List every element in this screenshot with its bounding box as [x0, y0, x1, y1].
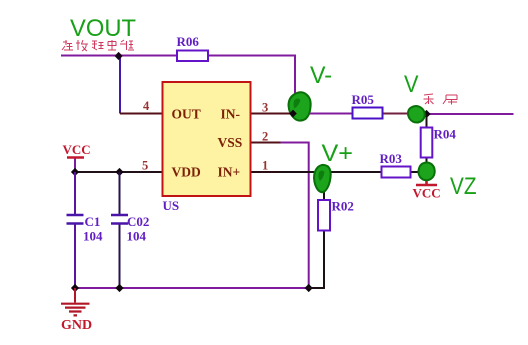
wire bottom ground bus	[75, 287, 309, 289]
wire VCC left to pin 5	[75, 171, 163, 173]
test point blob V-	[289, 92, 311, 120]
svg-text:R03: R03	[380, 151, 403, 166]
svg-text:3: 3	[262, 101, 268, 115]
node VCC-C1 junction	[71, 168, 79, 176]
node VSS bottom junction	[305, 284, 313, 292]
pin 2 of U5	[251, 142, 281, 144]
svg-text:VOUT: VOUT	[70, 15, 136, 42]
pin 3 of U5	[251, 113, 294, 115]
op-amp U5 body	[163, 82, 251, 196]
svg-text:V+: V+	[322, 140, 354, 167]
svg-text:V-: V-	[310, 62, 332, 89]
resistor R02	[318, 200, 330, 231]
power VCC right symbol	[416, 180, 437, 185]
test point blob VZ	[418, 162, 434, 180]
net label (Chinese) 采样 drawn as strokes	[424, 94, 458, 105]
wire C1 bottom lead	[74, 225, 76, 289]
wire R03 to VZ node	[411, 171, 421, 173]
node V junction	[422, 110, 430, 118]
wire C1 top lead	[74, 172, 76, 214]
wire C02 bottom lead	[119, 225, 121, 289]
svg-text:V: V	[404, 71, 419, 98]
node C02 top junction	[115, 168, 123, 176]
wire VOUT top horizontal	[61, 55, 177, 57]
wire C02 top lead	[119, 172, 121, 214]
wire VSS run right and down to bottom bus	[281, 143, 309, 289]
wire VCC left stem	[74, 158, 76, 173]
pin 1 of U5	[251, 171, 281, 173]
pin 4 of U5	[120, 113, 163, 115]
svg-text:R04: R04	[434, 127, 457, 142]
wire R05 to V node	[383, 113, 421, 115]
svg-text:IN-: IN-	[221, 107, 241, 122]
svg-text:C02: C02	[127, 214, 149, 229]
resistor R03	[382, 167, 411, 178]
test point blob V+	[314, 165, 331, 192]
resistor R06	[177, 51, 208, 62]
wire V- node to R05	[295, 113, 353, 115]
wire R04 bottom lead to VZ node	[426, 157, 428, 184]
svg-text:C1: C1	[85, 214, 101, 229]
node GND junction	[71, 284, 79, 292]
svg-text:US: US	[163, 198, 180, 213]
svg-text:VSS: VSS	[218, 135, 243, 150]
svg-text:R02: R02	[332, 199, 354, 214]
wire R02 bottom lead	[308, 231, 324, 289]
wire VOUT vertical drop to pin 4	[119, 56, 121, 114]
svg-text:IN+: IN+	[218, 165, 241, 180]
wire R06 right run and drop to V- node	[208, 56, 295, 115]
svg-text:104: 104	[127, 229, 147, 244]
resistor R04	[421, 128, 433, 158]
svg-text:VCC: VCC	[63, 142, 91, 157]
svg-text:GND: GND	[61, 318, 92, 333]
svg-text:4: 4	[143, 99, 150, 113]
svg-text:VDD: VDD	[172, 165, 201, 180]
capacitor C02 plates	[111, 215, 128, 224]
capacitor C1 plates	[67, 215, 84, 224]
wire V node to right end	[424, 113, 514, 115]
power VCC left symbol	[67, 156, 84, 159]
svg-text:VZ: VZ	[450, 173, 477, 200]
svg-text:104: 104	[83, 229, 103, 244]
ground symbol	[74, 288, 76, 303]
svg-text:5: 5	[142, 159, 148, 173]
node VOUT junction	[114, 52, 122, 60]
svg-text:1: 1	[262, 159, 268, 173]
wire R02 top lead	[323, 172, 325, 200]
svg-text:2: 2	[262, 130, 268, 144]
net label (Chinese) 运放输出值 drawn as strokes	[62, 40, 134, 51]
node V- junction	[289, 109, 297, 117]
test point blob V	[408, 106, 425, 123]
svg-text:VCC: VCC	[413, 186, 441, 201]
wire R04 top lead	[426, 114, 428, 128]
svg-text:R06: R06	[177, 34, 200, 49]
node V- junction dot over blob	[289, 110, 297, 118]
wire pin 1 to R03 through V+ node	[281, 171, 382, 173]
resistor R05	[353, 108, 383, 119]
svg-text:OUT: OUT	[172, 107, 201, 122]
svg-text:R05: R05	[352, 92, 375, 107]
node C02 bottom junction	[115, 284, 123, 292]
